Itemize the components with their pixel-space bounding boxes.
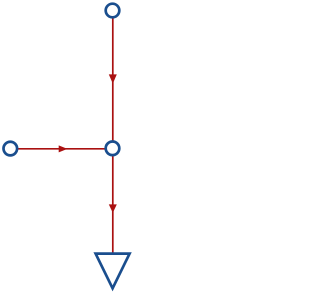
arrowhead on top wire (109, 74, 117, 83)
arrowhead on horizontal wire (59, 145, 68, 152)
terminal node (top) (106, 4, 120, 18)
wire from top terminal to junction (112, 18, 114, 142)
junction node (106, 142, 120, 156)
arrowhead on bottom wire (109, 204, 117, 213)
wire from left terminal to junction (18, 148, 107, 150)
ground symbol (96, 254, 130, 289)
wire from junction to ground (112, 155, 114, 254)
terminal node (left) (4, 142, 18, 156)
